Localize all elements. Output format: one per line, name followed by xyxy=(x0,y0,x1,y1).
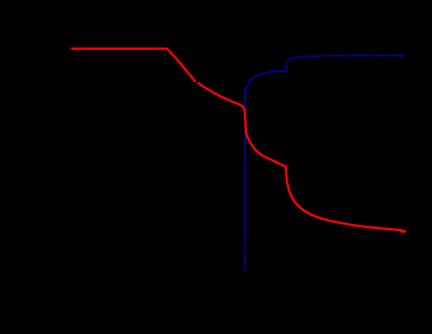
red curve: second bend xyxy=(246,134,285,167)
red curve xyxy=(70,49,405,232)
blue curve: step up xyxy=(286,58,294,71)
red curve: end blob xyxy=(401,230,404,233)
blue curve: upper plateau dashes xyxy=(294,56,297,58)
red curve: left plateau xyxy=(73,49,195,82)
red curve: steep drop at first equivalence xyxy=(245,109,247,134)
red curve: faint lead-in dot xyxy=(70,47,71,50)
red curve: tail xyxy=(287,182,402,231)
red curve: drop at second equivalence xyxy=(286,167,287,182)
blue curve: vertical rise segment xyxy=(245,56,405,271)
red curve: descent after gap xyxy=(198,83,244,109)
blue curve: first bend xyxy=(245,71,285,89)
